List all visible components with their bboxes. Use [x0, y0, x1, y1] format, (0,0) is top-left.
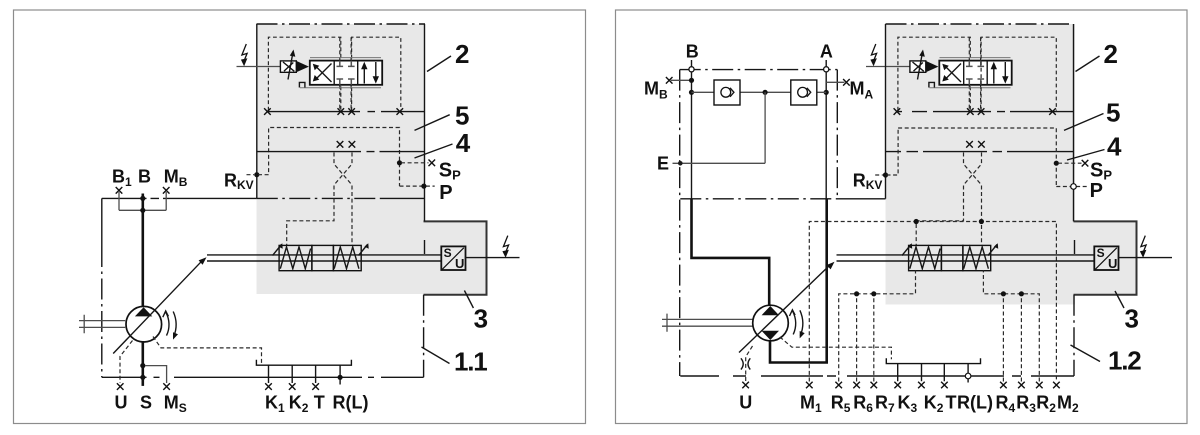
svg-text:R(L): R(L) [333, 392, 369, 412]
svg-text:A: A [820, 42, 833, 62]
svg-text:S: S [140, 392, 152, 412]
svg-text:4: 4 [456, 128, 471, 158]
svg-text:3: 3 [474, 304, 488, 334]
svg-text:P: P [1090, 180, 1103, 202]
svg-text:1.1: 1.1 [454, 347, 487, 377]
svg-text:P: P [439, 182, 452, 204]
svg-text:2: 2 [1104, 39, 1118, 69]
svg-text:T: T [314, 392, 325, 412]
svg-text:3: 3 [1125, 304, 1139, 334]
svg-text:U: U [1108, 256, 1117, 271]
svg-text:4: 4 [1107, 131, 1122, 161]
svg-text:5: 5 [455, 101, 469, 131]
svg-text:U: U [739, 392, 752, 412]
svg-text:U: U [115, 392, 128, 412]
svg-text:1.2: 1.2 [1108, 346, 1141, 376]
svg-text:T: T [946, 392, 957, 412]
svg-text:S: S [444, 246, 452, 260]
svg-text:B: B [138, 166, 151, 186]
svg-text:S: S [1097, 246, 1105, 260]
svg-text:2: 2 [455, 39, 469, 69]
svg-text:E: E [657, 154, 669, 174]
svg-text:R(L): R(L) [957, 392, 993, 412]
svg-text:B: B [686, 42, 699, 62]
svg-text:5: 5 [1106, 98, 1120, 128]
svg-text:U: U [455, 256, 464, 271]
